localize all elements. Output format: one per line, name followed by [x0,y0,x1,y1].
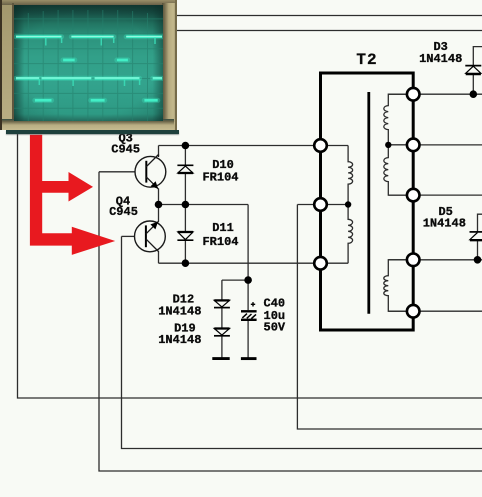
scope shadow strip [6,130,179,134]
node bottom rail / D11 [182,259,190,267]
diode D10 FR104 [177,165,193,173]
wire D5 cathode to edge [478,214,482,232]
trace bright cores ch1 [16,36,162,78]
wire Q4 base horizontal [122,235,136,237]
wire Q3 base horizontal [99,171,136,173]
wire top net1 from scope to right edge [175,15,482,17]
scope bezel right outer edge [175,0,177,130]
transistor Q3 C945 [135,155,166,190]
diode D19 1N4148 [214,329,230,336]
wire T2 right terminal 1 to edge [388,93,482,95]
T2 terminal right 4 [407,253,420,266]
scope bezel right face [162,3,178,122]
channel 1 trace high segments [16,35,162,38]
channel 2 trace high segments [16,76,162,79]
wire D3 cathode to edge [473,47,482,66]
scope bezel top inner slope [2,0,177,5]
scope bezel bottom face [2,119,174,131]
crt corner vignette [14,5,163,121]
wire T2 mid-left branch down to bus [297,205,482,430]
oscilloscope photo [0,0,177,130]
graticule grid [14,10,163,121]
ground for C40 [241,357,257,360]
wire T2 right terminal 3 to edge [388,194,482,196]
T2 terminal right 2 [407,139,420,152]
scope bezel body [0,0,177,130]
channel 2 trace low pulses [35,98,158,101]
wire Q4 emitter to node E [158,205,160,222]
T2 terminal left 2 [314,198,327,211]
T2 terminal left 1 [314,139,327,152]
transistor Q4 C945 [135,221,166,252]
diode D3 1N4148 [465,66,481,75]
node D5 anode [474,256,482,264]
wire T2 right terminal 5 to edge [388,310,482,312]
wire D10 cathode stub [184,146,186,166]
wire T2 right terminal 4 to edge [388,259,482,261]
node T2 left winding tap [345,201,351,207]
wire C40 branch vertical [247,205,249,311]
svg-text:D11: D11 [212,221,234,235]
T2 left winding [348,146,353,264]
svg-text:50V: 50V [264,321,286,335]
wire Q3 collector stub [158,146,160,157]
svg-text:C945: C945 [111,142,140,156]
channel 2 edge ticks [39,79,139,86]
scope crt screen [14,5,163,121]
T2 terminal left 3 [314,257,327,270]
wire D10 anode stub [184,173,186,205]
crt background [14,5,163,121]
node T2 right winding tap [385,142,391,148]
wire Q4 collector stub [158,251,160,263]
wire D12 top link [222,279,248,281]
T2 terminal right 5 [407,305,420,318]
wire D19 cathode to ground [221,336,223,358]
svg-text:1N4148: 1N4148 [423,217,466,231]
wire D11 cathode stub [184,240,186,263]
svg-text:1N4148: 1N4148 [158,305,201,319]
T2 terminal right 1 [407,88,420,101]
wire Q4 base vertical to bottom bus [122,236,482,448]
wire scope-left vertical down and bottom bus [18,133,482,398]
node D3 anode [470,90,478,98]
wire C40 bottom to ground [247,321,249,359]
channel 1 trace glow [16,36,162,100]
wire D12 anode stub [221,280,223,300]
node C40 / D12 [244,276,252,284]
T2 right winding upper tap link [388,144,406,146]
wire T2 mid-left terminal to left [297,204,348,206]
svg-text:1N4148: 1N4148 [419,52,462,66]
transformer T2 body [321,73,414,330]
red arrow upper [30,135,115,255]
svg-text:1N4148: 1N4148 [158,333,201,347]
diode D12 1N4148 [214,300,230,307]
wire top net2 from scope to right edge [175,30,482,32]
node middle rail / D11 [182,201,190,209]
T2 right winding upper [384,94,406,195]
wire D5 anode stub [477,240,479,260]
transformer T2 core bar [367,92,370,314]
channel 1 edge ticks [46,37,155,45]
node top rail / D10 [182,142,190,150]
wire bottom rail to T2 left coil [159,262,349,264]
scope bezel left dark edge [0,0,2,130]
channel 1 trace low pulses [63,58,128,61]
wire middle rail node E to C40 branch [159,204,249,206]
svg-text:FR104: FR104 [202,235,238,249]
wire D11 anode stub [184,205,186,233]
wire D3 anode stub [472,74,474,94]
diode D11 FR104 [177,232,193,240]
wire T2 right terminal 2 to edge [388,144,482,146]
svg-text:T2: T2 [356,51,377,69]
T2 terminal right 3 [407,189,420,202]
scope bezel left inner edge [12,3,14,122]
capacitor C40 10u 50V [241,302,257,320]
diode D5 1N4148 [470,232,482,240]
svg-text:FR104: FR104 [202,171,238,185]
wire top rail to T2 left coil [159,145,349,147]
T2 right winding lower [384,260,406,311]
wire Q3 base vertical to bottom bus [99,172,482,471]
node emitters junction [155,201,163,209]
svg-text:C945: C945 [109,205,138,219]
wire D12-D19 link [221,308,223,328]
wire Q3 emitter to node E [158,189,160,205]
ground for D19 [212,357,229,360]
